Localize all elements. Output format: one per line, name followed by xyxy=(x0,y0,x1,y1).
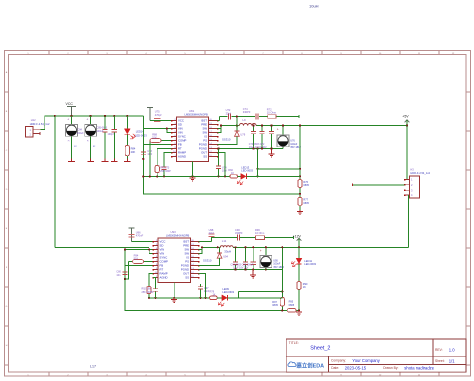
top ticks xyxy=(49,51,439,55)
capacitor C72 output xyxy=(269,125,275,158)
svg-text:U93: U93 xyxy=(171,230,177,234)
svg-text:LED-0603: LED-0603 xyxy=(241,169,253,173)
svg-text:SS: SS xyxy=(203,155,207,159)
left pin stubs xyxy=(172,121,177,157)
wire VIN pins xyxy=(143,129,171,133)
svg-text:+: + xyxy=(277,127,279,131)
svg-text:20K: 20K xyxy=(131,150,136,154)
right ticks xyxy=(466,92,471,365)
power +12V xyxy=(293,235,302,249)
capacitor C71 output xyxy=(259,125,264,149)
wire PGND rail top xyxy=(218,148,284,150)
svg-text:AGND: AGND xyxy=(160,276,168,280)
capacitor C85 electrolytic xyxy=(85,116,97,161)
capacitor L73 330P xyxy=(160,153,171,177)
resistor R82 1K xyxy=(228,169,237,178)
svg-text:Date:: Date: xyxy=(331,366,339,370)
op IC U81 LM5005MHX/NOPB xyxy=(171,109,218,162)
capacitor L98 330PF xyxy=(142,278,159,298)
capacitor U76 electrolytic output xyxy=(277,125,302,150)
op IC U93 LM5005MHX/NOPB xyxy=(153,230,200,283)
connector H3 HDR-F-2.54_1x4 xyxy=(404,168,430,199)
svg-text:U94: U94 xyxy=(223,254,228,258)
wire +12V rail up to pin4 xyxy=(407,195,409,247)
svg-text:100uF: 100uF xyxy=(97,130,104,133)
svg-text:10 Ohm: 10 Ohm xyxy=(267,111,276,115)
capacitor U95 electrolytic output xyxy=(260,246,285,269)
wire divider column x282 xyxy=(281,247,283,310)
svg-text:Fr: Fr xyxy=(68,141,70,143)
svg-text:100uF: 100uF xyxy=(77,132,84,135)
capacitor C86 xyxy=(102,116,109,161)
ground output bottom xyxy=(250,270,256,279)
value labels output caps bottom xyxy=(231,263,255,269)
power symbol VCC xyxy=(66,102,76,116)
resistor R75 25K xyxy=(155,149,171,177)
svg-text:22nf: 22nf xyxy=(209,231,214,235)
resistor R77 0805 xyxy=(298,198,310,206)
capacitor C87 xyxy=(111,116,118,161)
node FB junction xyxy=(142,158,144,160)
left ticks xyxy=(5,92,9,365)
capacitor C74 330PF series xyxy=(243,107,258,119)
wire FB pin xyxy=(143,144,171,146)
svg-text:REV:: REV: xyxy=(435,348,443,352)
resistor R92 25K xyxy=(147,274,153,298)
capacitor U75 470pf xyxy=(154,110,162,122)
resistor R95 0805 xyxy=(287,301,296,313)
capacitor C93 output xyxy=(233,246,238,269)
pin 1 xyxy=(33,128,41,130)
wire AGND bottom rail xyxy=(143,175,230,177)
LED14 LED-0603 xyxy=(124,116,147,139)
resistor R79 1K xyxy=(210,291,218,300)
capacitor U98 22nf xyxy=(209,228,215,237)
svg-text:0805: 0805 xyxy=(303,184,309,187)
wire H12 pin1 to VCC rail xyxy=(41,116,45,129)
svg-text:LED-0603: LED-0603 xyxy=(222,290,234,294)
svg-text:10nf: 10nf xyxy=(222,170,227,173)
right pin stubs xyxy=(209,121,218,157)
ground below divider xyxy=(297,210,303,214)
svg-text:G: G xyxy=(6,306,8,308)
resistor R97 0805 xyxy=(272,298,284,308)
resistor R84 20K xyxy=(124,134,136,161)
svg-text:0805: 0805 xyxy=(303,202,309,205)
resistor R76 0805 xyxy=(298,180,310,188)
wire +5V to connector pin1 xyxy=(407,126,410,180)
wire VCC rail down to bottom circuit input xyxy=(54,116,56,247)
svg-text:嘉立创EDA: 嘉立创EDA xyxy=(296,361,325,369)
svg-text:2023-05-15: 2023-05-15 xyxy=(345,365,367,370)
LED11 LED-0603 xyxy=(291,247,316,281)
pin numbers xyxy=(173,119,176,157)
svg-text:51K: 51K xyxy=(152,136,157,140)
capacitor C73 on trunk xyxy=(141,150,153,156)
wire VCC top rail xyxy=(45,115,144,117)
svg-text:1K: 1K xyxy=(212,294,215,297)
node SW junction xyxy=(220,125,222,127)
svg-text:Company:: Company: xyxy=(331,358,346,362)
svg-text:LED-0603: LED-0603 xyxy=(304,262,316,266)
svg-text:H12: H12 xyxy=(31,118,36,122)
LED13 LED-0603 xyxy=(237,149,300,185)
svg-text:0805: 0805 xyxy=(289,304,295,307)
wire OUT column bottom xyxy=(199,274,206,298)
svg-text:Sheet_2: Sheet_2 xyxy=(310,346,330,352)
svg-text:100pf: 100pf xyxy=(108,133,114,136)
capacitor U72 22nf series xyxy=(226,108,231,119)
svg-text:LM5005MHX/NOPB: LM5005MHX/NOPB xyxy=(166,234,189,238)
bottom ticks xyxy=(49,372,439,376)
value labels input caps xyxy=(77,127,114,136)
capacitor C90 330PF series xyxy=(235,228,243,241)
svg-text:+5V: +5V xyxy=(402,115,409,119)
svg-text:SS: SS xyxy=(185,276,189,280)
svg-text:25K 330PF: 25K 330PF xyxy=(142,291,155,294)
svg-text:33uH: 33uH xyxy=(224,250,231,254)
svg-text:+: + xyxy=(260,249,262,253)
pin 2 xyxy=(33,132,40,135)
EDA logo xyxy=(288,361,324,369)
svg-text:10n: 10n xyxy=(116,274,121,277)
svg-text:SS310: SS310 xyxy=(222,137,231,141)
svg-text:VCC: VCC xyxy=(66,102,74,106)
connector H12 HDR-F-2.54_1x2 xyxy=(26,118,50,137)
svg-text:470pf: 470pf xyxy=(155,113,162,117)
wire BST boot rail xyxy=(218,115,300,121)
wire BST bottom xyxy=(199,237,212,242)
power bar symbol at U75 xyxy=(147,107,153,120)
svg-text:1K: 1K xyxy=(231,172,234,175)
wire PGND rail bottom xyxy=(199,269,283,271)
svg-text:AGND: AGND xyxy=(178,155,186,159)
svg-text:35V 1812: 35V 1812 xyxy=(273,266,284,269)
wire VCC pin xyxy=(150,120,172,122)
capacitor U74 10nf xyxy=(216,149,227,177)
wire OUT column xyxy=(218,153,226,177)
wire FB trunk left xyxy=(143,116,300,194)
svg-text:Your Company: Your Company xyxy=(352,358,380,363)
svg-text:Sheet:: Sheet: xyxy=(435,359,445,363)
svg-text:L17: L17 xyxy=(90,365,96,369)
wire FB trunk bottom xyxy=(125,250,299,311)
diode U94 SS310 xyxy=(199,247,229,265)
wire SW to +5V rail xyxy=(218,126,408,133)
LED9 LED-0603 xyxy=(217,287,282,306)
svg-text:25K 330P: 25K 330P xyxy=(160,170,171,173)
svg-text:LED-0603: LED-0603 xyxy=(135,133,147,137)
wire VCC pin bottom IC xyxy=(132,241,154,243)
resistor R94 51K xyxy=(125,254,153,279)
svg-text:51K: 51K xyxy=(134,257,139,261)
pin names xyxy=(178,119,187,159)
capacitor C94 output xyxy=(243,246,248,269)
resistor R96 10 Ohm xyxy=(255,228,265,240)
power +5V xyxy=(402,115,409,127)
svg-text:L11: L11 xyxy=(222,239,227,243)
svg-text:TITLE:: TITLE: xyxy=(289,341,299,345)
capacitor C84 electrolytic xyxy=(66,116,78,161)
resistor R90 1K xyxy=(297,282,308,312)
capacitor C95 output xyxy=(251,246,256,269)
svg-text:HDR-F-2.54_1x2: HDR-F-2.54_1x2 xyxy=(30,122,50,126)
svg-text:22nf: 22nf xyxy=(226,111,231,115)
capacitor C80 on trunk xyxy=(116,271,127,277)
wire AGND rail bottom circuit xyxy=(149,297,282,299)
svg-text:HDR-F-2.54_1x4: HDR-F-2.54_1x4 xyxy=(410,171,430,175)
wire FB pin bottom xyxy=(125,265,153,267)
svg-text:1/1: 1/1 xyxy=(449,358,455,363)
inductor L11 xyxy=(220,239,233,254)
footprint marks near caps xyxy=(68,141,96,148)
resistor R72 10 Ohm xyxy=(267,107,276,118)
inductor L9 xyxy=(239,118,256,125)
capacitor C70 output xyxy=(251,125,256,149)
wire into pin2 xyxy=(353,184,405,186)
wire boot row bottom xyxy=(212,236,294,239)
wire divider column xyxy=(299,126,301,211)
svg-text:L9: L9 xyxy=(243,118,247,122)
diode U79 SS310 xyxy=(218,126,246,145)
resistor R88 51K xyxy=(150,133,172,177)
wire SW to +12V rail bottom xyxy=(199,247,409,253)
capacitor U97 10nF xyxy=(198,284,210,298)
value labels output caps xyxy=(249,143,267,149)
svg-text:U81: U81 xyxy=(189,109,195,113)
wire boot tap xyxy=(236,117,238,126)
svg-text:shota nadiradze: shota nadiradze xyxy=(404,365,434,370)
wire VIN pins bottom xyxy=(125,250,153,254)
svg-text:+: + xyxy=(86,118,88,122)
svg-text:U79: U79 xyxy=(240,133,245,137)
capacitor U96 470nF xyxy=(129,230,144,237)
svg-text:330PF: 330PF xyxy=(243,110,251,114)
svg-text:Drawn By:: Drawn By: xyxy=(383,366,398,370)
ground below bottom rail xyxy=(296,310,302,315)
wire input feed to bottom circuit xyxy=(55,246,149,248)
svg-text:+: + xyxy=(67,118,69,122)
svg-text:+12V: +12V xyxy=(293,235,302,239)
ground mid IC xyxy=(192,162,194,177)
svg-text:R84: R84 xyxy=(131,146,136,150)
title block xyxy=(286,339,466,372)
svg-text:0805: 0805 xyxy=(272,304,278,307)
svg-text:10uH: 10uH xyxy=(309,4,319,9)
svg-text:LM5005MHX/NOPB: LM5005MHX/NOPB xyxy=(185,113,208,117)
svg-text:470nF: 470nF xyxy=(136,234,144,238)
svg-text:1.0: 1.0 xyxy=(449,347,455,352)
svg-text:SS310: SS310 xyxy=(203,259,212,263)
svg-text:H3: H3 xyxy=(410,168,414,172)
ground mid bottom IC xyxy=(173,283,175,298)
svg-text:330PF: 330PF xyxy=(235,231,243,235)
svg-text:10 Ohm: 10 Ohm xyxy=(255,231,264,235)
node junctions on VCC rail xyxy=(54,115,129,117)
svg-text:1K: 1K xyxy=(303,286,306,289)
svg-text:Fr: Fr xyxy=(87,141,89,143)
power bar symbol U96 xyxy=(129,228,135,242)
